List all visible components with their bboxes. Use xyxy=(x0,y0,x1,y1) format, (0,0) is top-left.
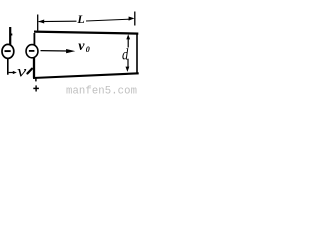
top conductor wire xyxy=(34,32,138,34)
svg-text:v: v xyxy=(78,39,85,54)
circle 1 top stem xyxy=(9,27,11,45)
circle 1 stem nub xyxy=(11,34,13,36)
terminal stub below bottom conductor xyxy=(35,78,37,81)
circle 2 bottom stem xyxy=(33,58,35,78)
velocity v0 arrow shaft xyxy=(41,50,69,52)
svg-text:manfen5.com: manfen5.com xyxy=(66,86,137,96)
svg-text:0: 0 xyxy=(86,45,90,54)
dimension L right extension tick xyxy=(134,12,136,26)
dimension L left arrowhead xyxy=(38,20,44,24)
dimension d upper shaft xyxy=(127,39,129,48)
dimension d lower arrowhead xyxy=(126,67,130,72)
circle 2 top stem xyxy=(33,33,35,45)
source circle 1 xyxy=(2,44,14,58)
diagonal tick after v xyxy=(27,69,32,74)
right vertical wire xyxy=(136,33,138,75)
bottom conductor wire xyxy=(33,73,139,78)
small arrow at bottom of stem 1 xyxy=(9,72,13,74)
velocity v0 arrowhead xyxy=(66,49,75,53)
dimension d upper arrowhead xyxy=(126,34,130,39)
minus sign in circle 2 xyxy=(29,50,35,52)
dimension L left extension tick xyxy=(37,15,39,31)
minus sign in circle 1 xyxy=(5,50,11,52)
dimension L line left segment xyxy=(39,20,77,22)
dimension L line right segment xyxy=(86,19,129,21)
svg-text:L: L xyxy=(76,12,84,26)
source circle 2 xyxy=(26,45,38,58)
svg-text:v: v xyxy=(17,63,27,81)
dimension L right arrowhead xyxy=(129,17,135,21)
circle 1 bottom stem xyxy=(7,58,9,75)
plus polarity sign xyxy=(33,87,39,89)
dimension d lower shaft xyxy=(127,59,129,67)
